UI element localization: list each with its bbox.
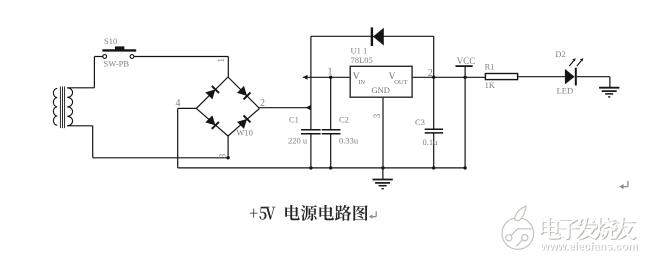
svg-text:C2: C2 [339, 115, 349, 125]
svg-text:GND: GND [372, 85, 390, 95]
svg-text:0.33u: 0.33u [339, 135, 359, 145]
svg-text:220 u: 220 u [288, 135, 308, 145]
svg-text:OUT: OUT [394, 79, 407, 86]
svg-text:78L05: 78L05 [351, 55, 373, 65]
svg-text:www.elecfans.com: www.elecfans.com [540, 241, 638, 253]
svg-text:LED: LED [557, 86, 574, 96]
svg-text:4: 4 [176, 98, 181, 109]
svg-text:IN: IN [358, 79, 365, 86]
svg-text:3: 3 [218, 153, 228, 158]
svg-text:3: 3 [372, 113, 382, 118]
svg-text:0.1u: 0.1u [423, 137, 439, 147]
svg-text:2: 2 [260, 98, 265, 109]
svg-text:C3: C3 [415, 117, 425, 127]
svg-text:1K: 1K [485, 80, 496, 90]
svg-text:S10: S10 [104, 36, 117, 46]
svg-text:1: 1 [328, 67, 333, 78]
svg-text:SW-PB: SW-PB [104, 59, 130, 69]
svg-text:1: 1 [216, 58, 226, 63]
svg-text:2: 2 [428, 68, 433, 79]
svg-text:C1: C1 [289, 115, 299, 125]
svg-text:VCC: VCC [457, 56, 476, 66]
svg-text:D2: D2 [555, 49, 565, 59]
svg-text:W10: W10 [236, 128, 253, 138]
svg-text:R1: R1 [485, 62, 495, 72]
